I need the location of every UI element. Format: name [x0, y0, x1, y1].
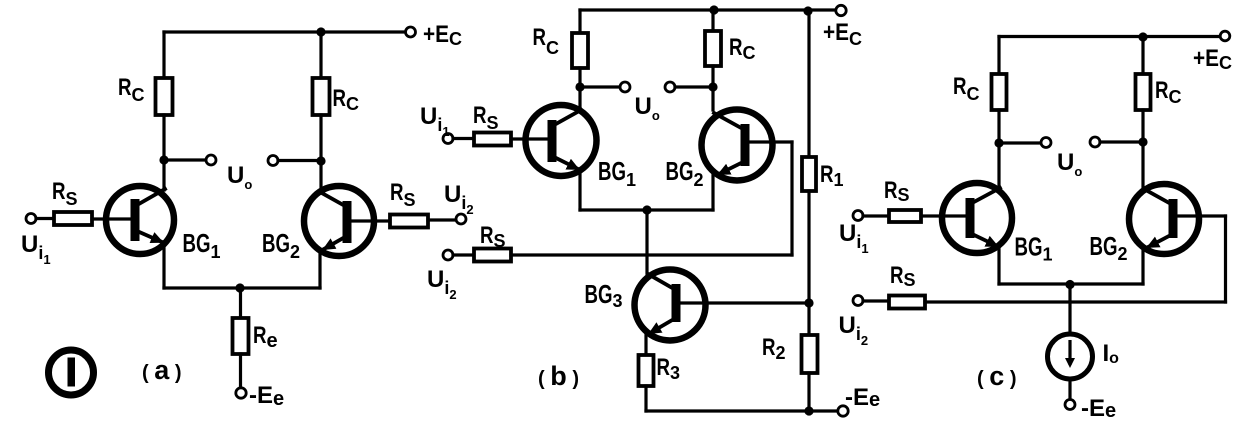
wire: Re to -Ee terminal (a)	[239, 354, 242, 388]
wire: rail to RC2 (c)	[1141, 37, 1144, 74]
wire: RS to Ui2 terminal (a)	[428, 218, 456, 221]
terminal Uo right (c)	[1090, 137, 1100, 147]
transistor BG2 (a)	[304, 186, 374, 256]
transistor BG1 (b)	[526, 105, 597, 176]
terminal -Ee (c)	[1065, 400, 1075, 410]
terminal Uo right (a)	[268, 156, 278, 166]
resistor RC (b, left)	[572, 33, 588, 68]
node: right output (c)	[1138, 137, 1147, 146]
node: left output (a)	[159, 155, 168, 164]
svg-text:-Ee: -Ee	[845, 384, 880, 411]
terminal +Ec (c)	[1220, 31, 1230, 41]
wire: rail to RC1 (b)	[578, 10, 581, 33]
current source Io (c)	[1048, 334, 1093, 379]
terminal Ui1 (c)	[853, 211, 863, 221]
node: collector BG2 to +Ec rail (a)	[316, 27, 325, 36]
resistor RC (a, right)	[313, 78, 330, 115]
wire: rail to RC1 (c)	[997, 37, 1000, 75]
wire: Uo right terminal to node (c)	[1100, 140, 1143, 143]
wire: Uo right terminal to node (a)	[278, 159, 321, 162]
wire: RS to base BG1 (a)	[92, 217, 132, 220]
resistor RS (a, left)	[54, 212, 92, 225]
wire: current source to -Ee terminal (c)	[1068, 379, 1071, 399]
wire: emitter BG2 to rail (b)	[711, 174, 714, 210]
wire: node to R2 (b)	[807, 303, 810, 335]
wire: RC2 to collector BG2 (a)	[319, 115, 322, 193]
transistor BG3 (b)	[635, 270, 706, 341]
transistor BG1 (a)	[106, 186, 174, 254]
wire: base BG2 to right branch (c)	[1177, 214, 1226, 217]
terminal Uo left (b)	[620, 82, 630, 92]
resistor R2 (b)	[802, 335, 818, 373]
wire: Ui1 terminal to RS (a)	[36, 217, 54, 220]
transistor BG1 (c)	[942, 183, 1012, 253]
wire: +Ec rail to RC1 (a)	[162, 32, 165, 78]
wire: Ui1 terminal to RS (c)	[863, 214, 889, 217]
wire: R2 to bottom rail (b)	[807, 373, 810, 411]
wire: emitter rail node down to BG3 (b)	[645, 210, 648, 273]
wire: bottom rail (b)	[646, 409, 838, 412]
wire: RC1 to collector BG1 (b)	[578, 68, 581, 111]
figure number I	[49, 350, 94, 395]
node: bottom rail / R2 (b)	[804, 406, 813, 415]
wire: node to Uo left terminal (a)	[164, 158, 206, 161]
node: +Ec rail / right RC (b)	[709, 5, 718, 14]
wire: base branch down to Ui2 line (b)	[790, 142, 793, 255]
wire: Ui1 terminal to RS (b)	[453, 137, 474, 140]
node: emitter rail to Re (a)	[235, 283, 244, 292]
wire: base BG2 to RS (a)	[351, 219, 390, 222]
wire: +Ec rail (c)	[999, 35, 1220, 38]
wire: emitter BG1 to rail (b)	[578, 170, 581, 210]
wire: node to Uo left terminal (c)	[999, 141, 1041, 144]
node: +Ec rail / right RC (c)	[1138, 32, 1147, 41]
node: left output (c)	[994, 138, 1003, 147]
wire: RC2 to collector BG2 (b)	[711, 66, 714, 110]
wire: RC1 to collector BG1 (c)	[997, 110, 1000, 187]
terminal Uo left (a)	[206, 155, 216, 165]
terminal -Ee (a)	[236, 388, 246, 398]
wire: Ui2 terminal to RS (b)	[453, 253, 474, 256]
transistor BG2 (c)	[1129, 184, 1199, 254]
terminal Uo right (b)	[665, 82, 675, 92]
node: emitter rail / current source (c)	[1065, 280, 1074, 289]
resistor RC (a, left)	[156, 78, 173, 115]
node: emitter rail / BG3 collector (b)	[642, 205, 651, 214]
resistor R1 (b)	[802, 157, 816, 191]
resistor Re (a)	[233, 318, 249, 354]
wire: RC1 to collector node (a)	[162, 115, 165, 190]
node: +Ec rail / R1 branch (b)	[803, 6, 812, 15]
wire: emitter BG1 to rail (c)	[997, 247, 1000, 284]
wire: node to Uo left terminal (b)	[580, 85, 620, 88]
wire: emitter BG2 to rail (a)	[318, 251, 321, 288]
wire: RC2 to collector BG2 (c)	[1141, 110, 1144, 188]
wire: RS to BG2 base branch (c)	[925, 300, 1226, 303]
node: R1/R2/BG3 base (b)	[804, 298, 813, 307]
wire: rail node down to current source (c)	[1068, 284, 1071, 334]
wire: emitter rail (c)	[999, 282, 1143, 285]
resistor RC (b, right)	[705, 31, 721, 66]
terminal +Ec (b)	[836, 5, 846, 15]
wire: rail to Re (a)	[239, 288, 242, 318]
transistor BG2 (b)	[702, 110, 773, 181]
wire: +Ec node down to R1 (b)	[807, 11, 810, 157]
resistor RS (c, lower)	[889, 296, 925, 309]
wire: right RC to +Ec rail (a)	[319, 32, 322, 78]
wire: emitter BG3 to R3 (b)	[644, 333, 647, 355]
resistor RS (a, right)	[390, 215, 428, 228]
resistor RC (c, left)	[992, 74, 1007, 110]
terminal Ui1 (a)	[26, 214, 36, 224]
wire: base BG2 to right branch (b)	[749, 140, 792, 143]
resistor RC (c, right)	[1136, 74, 1151, 110]
wire: RS to BG2 base branch (b)	[511, 253, 792, 256]
wire: emitter BG1 to rail (a)	[162, 244, 165, 288]
node: right output (b)	[708, 82, 717, 91]
resistor R3 (b)	[639, 355, 654, 386]
terminal Ui2 (b)	[443, 250, 453, 260]
terminal +Ec (a)	[406, 27, 416, 37]
resistor RS (b, lower)	[474, 249, 511, 262]
wire: Uo right terminal to node (b)	[675, 85, 713, 88]
terminal Uo left (c)	[1041, 138, 1051, 148]
terminal -Ee (b)	[838, 406, 848, 416]
resistor RS (b, upper)	[474, 133, 511, 146]
wire: rail to RC2 (b)	[711, 10, 714, 31]
wire: RS to base BG1 (c)	[921, 214, 966, 217]
wire: Ui2 terminal to RS (c)	[863, 299, 889, 302]
wire: R1 to base node (b)	[807, 191, 810, 303]
node: left output (b)	[575, 82, 584, 91]
wire: emitter rail (b)	[580, 208, 713, 211]
resistor RS (c, upper)	[889, 210, 921, 222]
wire: base branch down to Ui2 line (c)	[1224, 216, 1227, 302]
wire: RS to base BG1 (b)	[511, 137, 549, 140]
svg-text:-Ee: -Ee	[1081, 395, 1116, 422]
wire: +Ec rail (a)	[164, 30, 405, 33]
terminal Ui2 (c)	[853, 296, 863, 306]
wire: R3 to bottom rail (b)	[644, 386, 647, 411]
terminal Ui1 (b)	[443, 134, 453, 144]
wire: base BG3 to R1/R2 node (b)	[681, 301, 809, 304]
terminal Ui2 (a)	[456, 214, 466, 224]
wire: +Ec rail (b)	[580, 8, 836, 11]
wire: emitter BG2 to rail (c)	[1141, 248, 1144, 284]
node: right output (a)	[316, 156, 325, 165]
wire: emitter rail (a)	[164, 286, 320, 289]
